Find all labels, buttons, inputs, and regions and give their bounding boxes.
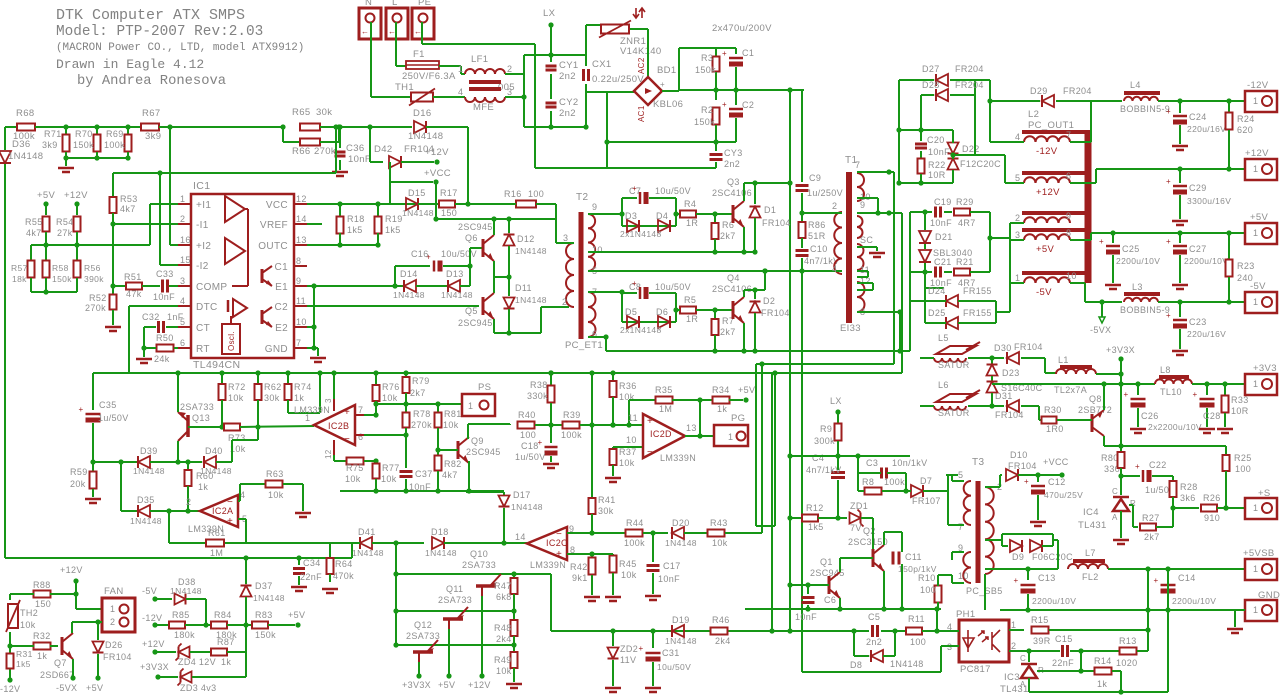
- svg-text:10: 10: [296, 317, 307, 327]
- svg-text:C12: C12: [1048, 477, 1066, 487]
- svg-text:+: +: [1123, 390, 1128, 399]
- svg-text:R50: R50: [156, 333, 174, 343]
- svg-text:-5VX: -5VX: [56, 683, 77, 693]
- svg-text:R60: R60: [196, 471, 214, 481]
- svg-text:Q6: Q6: [465, 233, 478, 243]
- svg-text:C2: C2: [742, 100, 754, 110]
- svg-text:1: 1: [1253, 228, 1258, 238]
- svg-text:L7: L7: [1085, 548, 1096, 558]
- svg-text:VCC: VCC: [266, 200, 288, 211]
- svg-text:2200u/10V: 2200u/10V: [1116, 256, 1160, 266]
- svg-text:10k: 10k: [345, 474, 361, 484]
- svg-text:3: 3: [507, 87, 512, 97]
- svg-text:D15: D15: [408, 188, 426, 198]
- svg-text:ZD1: ZD1: [850, 501, 868, 511]
- svg-text:0.22u/250V: 0.22u/250V: [592, 74, 644, 85]
- svg-text:2SC945: 2SC945: [458, 222, 493, 232]
- svg-text:+: +: [632, 279, 637, 288]
- svg-text:2k4: 2k4: [496, 634, 512, 644]
- svg-text:20k: 20k: [70, 479, 86, 489]
- svg-text:SATUR: SATUR: [938, 408, 970, 418]
- svg-text:(MACRON Power CO., LTD, model: (MACRON Power CO., LTD, model ATX9912): [56, 42, 304, 54]
- svg-text:ZD2: ZD2: [620, 644, 638, 654]
- svg-text:+5V: +5V: [738, 385, 755, 395]
- svg-text:IC4: IC4: [1083, 507, 1099, 518]
- svg-text:22nF: 22nF: [300, 572, 322, 582]
- svg-text:C4: C4: [812, 453, 824, 463]
- svg-text:R78: R78: [413, 409, 431, 419]
- svg-text:2x1N4148: 2x1N4148: [620, 229, 662, 239]
- svg-text:SATUR: SATUR: [938, 360, 970, 370]
- svg-text:D5: D5: [625, 307, 637, 317]
- svg-text:7: 7: [958, 522, 963, 532]
- svg-text:2n2: 2n2: [724, 159, 740, 169]
- svg-text:2: 2: [832, 201, 837, 211]
- svg-text:2SA733: 2SA733: [462, 560, 496, 570]
- svg-text:10: 10: [958, 571, 969, 581]
- svg-text:Q7: Q7: [54, 658, 67, 668]
- svg-text:C3: C3: [866, 458, 878, 468]
- svg-text:Model: PTP-2007 Rev:2.03: Model: PTP-2007 Rev:2.03: [56, 24, 263, 40]
- svg-text:2SC945: 2SC945: [458, 318, 493, 328]
- svg-text:R83: R83: [255, 610, 273, 620]
- svg-text:4R7: 4R7: [958, 218, 976, 228]
- svg-text:TL2x7A: TL2x7A: [1054, 385, 1087, 395]
- svg-text:D25: D25: [928, 308, 946, 318]
- svg-text:10k: 10k: [20, 620, 36, 630]
- svg-text:F12C20C: F12C20C: [960, 159, 1001, 169]
- svg-text:10k: 10k: [268, 490, 284, 500]
- svg-text:13: 13: [686, 423, 697, 433]
- svg-text:D16: D16: [413, 108, 431, 119]
- svg-text:R14: R14: [1094, 656, 1112, 666]
- svg-text:1R: 1R: [686, 314, 698, 324]
- svg-text:10nF: 10nF: [658, 574, 680, 584]
- svg-text:IC2C: IC2C: [546, 538, 568, 548]
- svg-text:L4: L4: [1130, 80, 1141, 90]
- svg-text:2: 2: [1011, 641, 1016, 651]
- svg-text:R52: R52: [89, 293, 107, 303]
- svg-text:VREF: VREF: [260, 220, 288, 231]
- svg-text:Oscl.: Oscl.: [227, 331, 236, 351]
- svg-text:16: 16: [180, 235, 191, 245]
- svg-text:1: 1: [728, 432, 733, 442]
- svg-text:24k: 24k: [154, 354, 170, 364]
- svg-text:R55: R55: [25, 217, 43, 227]
- svg-text:1: 1: [1253, 96, 1258, 106]
- svg-text:2200u/10V: 2200u/10V: [1032, 596, 1076, 606]
- svg-text:R76: R76: [382, 382, 400, 392]
- svg-text:L6: L6: [938, 380, 949, 390]
- svg-text:-12V: -12V: [1247, 80, 1269, 91]
- svg-text:1N4148: 1N4148: [352, 548, 384, 558]
- svg-text:+: +: [1192, 390, 1197, 399]
- svg-text:+: +: [1024, 477, 1029, 486]
- svg-text:-12V: -12V: [1036, 146, 1058, 157]
- svg-text:6: 6: [358, 432, 363, 442]
- svg-text:MFE: MFE: [473, 102, 494, 113]
- svg-text:C18: C18: [521, 441, 539, 451]
- svg-text:C28: C28: [1203, 411, 1221, 421]
- svg-text:C10: C10: [810, 244, 828, 254]
- svg-text:2: 2: [110, 617, 115, 627]
- svg-text:R46: R46: [712, 615, 730, 625]
- svg-text:FR204: FR204: [955, 64, 984, 74]
- svg-text:4: 4: [832, 264, 837, 274]
- svg-text:Q11: Q11: [446, 584, 463, 594]
- svg-text:9: 9: [592, 202, 597, 212]
- svg-text:D8: D8: [850, 660, 862, 670]
- svg-text:C5: C5: [868, 612, 880, 622]
- svg-text:R45: R45: [619, 559, 637, 569]
- svg-text:27k: 27k: [57, 228, 73, 238]
- svg-text:+12V: +12V: [1036, 187, 1060, 198]
- svg-text:1u/250V: 1u/250V: [807, 188, 843, 198]
- svg-text:LF1: LF1: [471, 54, 488, 65]
- svg-text:9: 9: [860, 200, 865, 210]
- svg-text:R49: R49: [494, 655, 512, 665]
- svg-text:+: +: [556, 549, 562, 560]
- svg-text:C2: C2: [275, 302, 289, 313]
- svg-text:R64: R64: [335, 559, 353, 569]
- svg-text:D41: D41: [358, 527, 376, 537]
- svg-text:10u/50V: 10u/50V: [655, 282, 691, 292]
- svg-text:+12V: +12V: [425, 147, 449, 158]
- svg-text:PS: PS: [478, 382, 491, 393]
- svg-text:4: 4: [180, 296, 185, 306]
- svg-text:TL431: TL431: [1078, 520, 1107, 531]
- svg-text:R10: R10: [918, 573, 936, 583]
- svg-text:R85: R85: [172, 610, 190, 620]
- svg-text:TL494CN: TL494CN: [193, 359, 240, 371]
- svg-text:D37: D37: [255, 581, 273, 591]
- svg-text:1N4148: 1N4148: [515, 295, 547, 305]
- svg-text:R15: R15: [1031, 615, 1049, 625]
- svg-text:270k: 270k: [314, 146, 336, 157]
- svg-text:51R: 51R: [808, 231, 826, 241]
- svg-text:V14K140: V14K140: [620, 46, 662, 57]
- svg-text:2: 2: [186, 497, 191, 507]
- svg-text:1N4148: 1N4148: [133, 466, 165, 476]
- svg-text:100: 100: [920, 585, 936, 595]
- svg-text:+: +: [1166, 177, 1171, 186]
- svg-text:SC: SC: [860, 235, 873, 245]
- svg-text:1N4148: 1N4148: [170, 586, 202, 596]
- svg-text:Q5: Q5: [465, 306, 478, 316]
- svg-text:TH1: TH1: [395, 82, 414, 93]
- svg-text:R21: R21: [956, 257, 974, 267]
- svg-text:D29: D29: [1030, 86, 1048, 96]
- svg-text:R5: R5: [684, 295, 696, 305]
- svg-text:3: 3: [563, 233, 568, 243]
- svg-text:R36: R36: [619, 381, 637, 391]
- svg-text:D9: D9: [1012, 552, 1024, 562]
- svg-text:R17: R17: [440, 188, 458, 198]
- svg-text:DTC: DTC: [196, 302, 218, 313]
- svg-text:PG: PG: [731, 413, 745, 424]
- svg-text:620: 620: [1237, 125, 1253, 135]
- svg-text:R29: R29: [956, 197, 974, 207]
- svg-text:C37: C37: [415, 469, 433, 479]
- svg-text:+: +: [638, 644, 643, 653]
- svg-text:D42: D42: [374, 144, 392, 155]
- svg-text:D36: D36: [12, 139, 30, 150]
- svg-text:-5VX: -5VX: [1090, 325, 1111, 335]
- svg-text:+3V3X: +3V3X: [140, 662, 169, 672]
- svg-text:COMP: COMP: [196, 282, 227, 293]
- svg-text:C26: C26: [1141, 411, 1159, 421]
- svg-text:11: 11: [296, 296, 306, 306]
- svg-text:R81: R81: [444, 409, 462, 419]
- svg-text:390k: 390k: [84, 274, 104, 284]
- svg-text:270k: 270k: [85, 303, 106, 313]
- svg-text:R59: R59: [70, 467, 88, 477]
- svg-text:R79: R79: [412, 376, 430, 386]
- svg-text:-12V: -12V: [0, 684, 20, 694]
- svg-text:10u/50V: 10u/50V: [657, 662, 691, 672]
- svg-text:R67: R67: [142, 108, 160, 119]
- svg-text:10k: 10k: [496, 666, 512, 676]
- svg-text:100: 100: [1235, 464, 1251, 474]
- svg-text:IC2B: IC2B: [328, 421, 349, 431]
- svg-text:OUTC: OUTC: [258, 241, 288, 252]
- svg-text:R74: R74: [294, 382, 312, 392]
- svg-text:R43: R43: [710, 518, 728, 528]
- svg-text:+I1: +I1: [196, 200, 211, 211]
- svg-text:D35: D35: [137, 495, 155, 505]
- svg-text:-I2: -I2: [196, 261, 209, 272]
- svg-text:10nF: 10nF: [930, 218, 952, 228]
- svg-text:1R0: 1R0: [1046, 424, 1064, 434]
- svg-text:+5V: +5V: [37, 190, 56, 201]
- svg-text:R25: R25: [1234, 453, 1252, 463]
- svg-text:1: 1: [1253, 164, 1258, 174]
- svg-text:12: 12: [296, 194, 307, 204]
- svg-text:3: 3: [180, 276, 185, 286]
- svg-text:150: 150: [441, 208, 457, 218]
- svg-text:1: 1: [1015, 273, 1020, 283]
- svg-text:L8: L8: [1160, 365, 1171, 375]
- svg-text:2: 2: [562, 297, 567, 307]
- svg-text:D40: D40: [205, 446, 223, 456]
- svg-text:+3V3X: +3V3X: [402, 680, 431, 690]
- svg-text:9: 9: [1066, 211, 1071, 221]
- svg-text:14: 14: [515, 532, 526, 542]
- svg-text:D4: D4: [656, 211, 668, 221]
- svg-text:-5V: -5V: [1036, 287, 1052, 298]
- svg-text:LM339N: LM339N: [530, 560, 566, 570]
- svg-text:FR104: FR104: [995, 410, 1024, 420]
- svg-text:D17: D17: [513, 490, 531, 500]
- svg-text:D22: D22: [962, 144, 980, 154]
- svg-text:+5VSB: +5VSB: [1243, 548, 1275, 559]
- svg-text:1N4148: 1N4148: [130, 516, 162, 526]
- svg-text:2SA733: 2SA733: [180, 402, 214, 412]
- svg-text:F06C20C: F06C20C: [1032, 552, 1073, 562]
- svg-text:D10: D10: [1010, 450, 1028, 460]
- svg-text:10: 10: [592, 245, 603, 255]
- svg-text:BOBBIN5-9: BOBBIN5-9: [1120, 104, 1170, 114]
- svg-text:30k: 30k: [264, 393, 280, 403]
- svg-text:L1: L1: [1058, 355, 1069, 365]
- svg-text:39R: 39R: [1033, 636, 1051, 646]
- svg-text:-12V: -12V: [142, 613, 162, 623]
- svg-text:7: 7: [358, 405, 363, 415]
- svg-text:+12V: +12V: [1245, 148, 1269, 159]
- svg-text:R40: R40: [518, 410, 536, 420]
- svg-text:D39: D39: [140, 446, 158, 456]
- svg-text:R58: R58: [52, 263, 69, 273]
- svg-text:+12V: +12V: [468, 680, 491, 690]
- svg-text:R68: R68: [16, 108, 34, 119]
- svg-text:180k: 180k: [174, 630, 195, 640]
- svg-text:R4: R4: [684, 199, 696, 209]
- svg-text:+: +: [632, 184, 637, 193]
- svg-text:6k8: 6k8: [496, 592, 512, 602]
- svg-text:C22: C22: [1149, 460, 1167, 470]
- svg-text:D24: D24: [928, 286, 946, 296]
- svg-text:1N4148: 1N4148: [253, 593, 285, 603]
- svg-text:+5V: +5V: [1036, 244, 1055, 255]
- svg-text:470k: 470k: [333, 571, 354, 581]
- svg-text:9: 9: [296, 276, 301, 286]
- svg-text:FR155: FR155: [963, 286, 992, 296]
- svg-text:IC2D: IC2D: [650, 429, 672, 439]
- svg-text:C13: C13: [1038, 573, 1056, 583]
- svg-text:1N4148: 1N4148: [393, 290, 425, 300]
- svg-text:C6: C6: [824, 595, 836, 605]
- svg-text:D28: D28: [922, 80, 940, 90]
- svg-text:D18: D18: [431, 527, 449, 537]
- svg-text:R30: R30: [1044, 405, 1062, 415]
- svg-text:10k: 10k: [443, 420, 459, 430]
- svg-text:150k: 150k: [255, 630, 276, 640]
- svg-text:+: +: [1166, 311, 1171, 320]
- svg-text:30k: 30k: [316, 107, 332, 118]
- svg-text:−: −: [647, 447, 653, 458]
- svg-text:R34: R34: [712, 385, 730, 395]
- svg-text:100k: 100k: [884, 477, 905, 487]
- svg-text:LX: LX: [830, 396, 842, 406]
- svg-text:R38: R38: [530, 380, 548, 390]
- svg-text:8: 8: [1066, 228, 1071, 238]
- svg-text:R57: R57: [11, 263, 28, 273]
- svg-text:22nF: 22nF: [1052, 658, 1074, 668]
- svg-text:2k7: 2k7: [720, 231, 736, 241]
- svg-text:C16: C16: [411, 249, 429, 259]
- svg-text:R8: R8: [862, 477, 874, 487]
- svg-text:FL2: FL2: [1082, 572, 1099, 582]
- svg-text:Q13: Q13: [192, 413, 210, 423]
- svg-text:1: 1: [468, 401, 473, 411]
- svg-text:R39: R39: [563, 410, 581, 420]
- svg-text:Drawn in Eagle 4.12: Drawn in Eagle 4.12: [56, 57, 204, 72]
- svg-text:1: 1: [1253, 564, 1258, 574]
- svg-text:2SA733: 2SA733: [406, 631, 440, 641]
- svg-text:+12V: +12V: [60, 565, 83, 575]
- svg-text:910: 910: [1204, 513, 1220, 523]
- svg-text:2SA733: 2SA733: [438, 595, 472, 605]
- svg-text:1: 1: [305, 413, 310, 423]
- svg-text:10R: 10R: [1231, 406, 1249, 416]
- svg-text:C27: C27: [1189, 244, 1207, 254]
- svg-text:100k: 100k: [561, 430, 582, 440]
- svg-text:N: N: [365, 0, 372, 8]
- svg-text:R71: R71: [44, 129, 62, 139]
- svg-text:+: +: [722, 49, 727, 58]
- svg-text:R62: R62: [264, 382, 282, 392]
- svg-text:C35: C35: [99, 400, 117, 410]
- svg-text:R44: R44: [626, 518, 644, 528]
- svg-text:FR204: FR204: [1063, 86, 1092, 96]
- svg-text:7V: 7V: [850, 523, 862, 533]
- svg-text:2SB772: 2SB772: [1078, 405, 1112, 415]
- svg-text:R80: R80: [1101, 453, 1119, 463]
- svg-text:R51: R51: [124, 272, 142, 282]
- svg-text:2k7: 2k7: [410, 388, 426, 398]
- svg-text:C33: C33: [156, 269, 174, 279]
- svg-text:1u/50V: 1u/50V: [98, 413, 129, 423]
- svg-text:R32: R32: [33, 631, 51, 641]
- svg-text:1u/50V: 1u/50V: [515, 452, 546, 462]
- svg-text:R84: R84: [214, 610, 232, 620]
- svg-text:1k: 1k: [294, 393, 304, 403]
- svg-text:1k: 1k: [1097, 679, 1107, 689]
- svg-text:PE: PE: [418, 0, 431, 8]
- svg-text:4k7: 4k7: [26, 228, 42, 238]
- svg-text:C24: C24: [1189, 112, 1207, 122]
- svg-text:FAN: FAN: [104, 586, 124, 597]
- svg-text:FR104: FR104: [1014, 342, 1043, 352]
- svg-text:1N4148: 1N4148: [511, 502, 543, 512]
- svg-text:1: 1: [1011, 620, 1016, 630]
- svg-text:Q12: Q12: [414, 620, 432, 630]
- svg-text:1: 1: [180, 194, 185, 204]
- svg-text:250V/F6.3A: 250V/F6.3A: [402, 71, 456, 82]
- svg-text:R22: R22: [928, 160, 946, 170]
- svg-text:1k5: 1k5: [347, 225, 363, 235]
- svg-text:R66: R66: [292, 146, 310, 157]
- svg-text:1k: 1k: [198, 482, 208, 492]
- svg-text:LM339N: LM339N: [294, 405, 330, 415]
- svg-text:150k: 150k: [52, 274, 72, 284]
- svg-text:C: C: [1020, 654, 1026, 663]
- svg-text:220u/16V: 220u/16V: [1187, 124, 1226, 134]
- svg-text:BOBBIN5-9: BOBBIN5-9: [1120, 305, 1170, 315]
- svg-text:330k: 330k: [527, 391, 548, 401]
- svg-text:T2: T2: [576, 192, 588, 203]
- svg-text:+5V: +5V: [288, 610, 305, 620]
- svg-text:C14: C14: [1178, 573, 1196, 583]
- svg-text:FR155: FR155: [963, 308, 992, 318]
- svg-text:10nF: 10nF: [928, 147, 950, 157]
- svg-text:10nF: 10nF: [348, 154, 371, 165]
- svg-text:300k: 300k: [814, 436, 835, 446]
- svg-text:5: 5: [180, 317, 185, 327]
- svg-text:100: 100: [520, 430, 536, 440]
- svg-text:+3V3X: +3V3X: [1106, 345, 1135, 355]
- svg-text:11V: 11V: [620, 655, 636, 665]
- svg-text:14: 14: [296, 214, 307, 224]
- svg-text:R41: R41: [598, 495, 616, 505]
- svg-text:C17: C17: [663, 561, 681, 571]
- svg-text:5: 5: [958, 470, 963, 480]
- svg-text:C34: C34: [303, 558, 321, 568]
- svg-text:R82: R82: [444, 459, 462, 469]
- svg-text:4k7: 4k7: [442, 470, 458, 480]
- svg-text:C32: C32: [142, 312, 160, 322]
- svg-text:2n2: 2n2: [559, 71, 576, 82]
